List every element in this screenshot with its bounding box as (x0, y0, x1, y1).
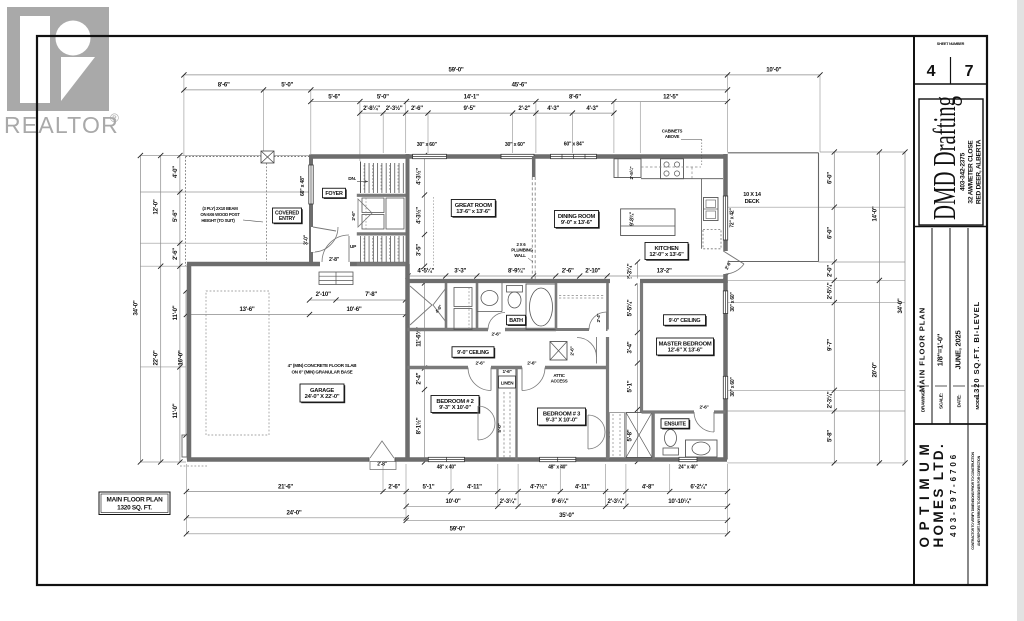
svg-text:30" x 60": 30" x 60" (730, 292, 736, 312)
svg-text:2'-3½": 2'-3½" (386, 105, 403, 112)
svg-text:5'-6": 5'-6" (172, 210, 179, 222)
ensuite vanity (686, 440, 718, 457)
kitchen upper cabinets dashed (641, 166, 701, 168)
bed3 closet dashed strip (610, 413, 625, 458)
svg-text:4" (MIN) CONCRETE FLOOR SLAB: 4" (MIN) CONCRETE FLOOR SLAB (288, 363, 358, 368)
svg-text:6'-0": 6'-0" (826, 227, 833, 239)
master west wall (640, 330, 643, 413)
window 30x60 #2 (501, 154, 534, 158)
kitchen island (621, 209, 675, 236)
svg-text:20'-0": 20'-0" (871, 362, 878, 377)
svg-text:5'-0": 5'-0" (377, 93, 389, 100)
main interior wall (408, 279, 726, 283)
dim col stairs 4-3 4-3 3-5 (424, 156, 426, 267)
svg-text:9'-6¼": 9'-6¼" (552, 498, 569, 505)
svg-text:RED DEER, ALBERTA: RED DEER, ALBERTA (976, 139, 983, 204)
svg-text:DN.: DN. (348, 176, 356, 182)
svg-text:2'-0": 2'-0" (826, 265, 833, 277)
MAIN FLOOR PLAN title box (99, 492, 170, 515)
stair upper run DN (360, 163, 362, 193)
kitchen east wall (723, 154, 728, 251)
svg-text:2'-10": 2'-10" (316, 291, 331, 298)
hall east wall upper (640, 283, 643, 330)
svg-text:10'-0": 10'-0" (766, 67, 781, 74)
dim col right 6-0 6-0 2-0 and lower (833, 152, 835, 463)
dim row bottom segments (186, 491, 727, 493)
svg-text:10'-0": 10'-0" (445, 498, 460, 505)
window 48x40 #1 (428, 457, 464, 461)
title field SCALE: (935, 385, 947, 387)
svg-text:5'-0": 5'-0" (497, 423, 503, 432)
svg-text:CONTRACTOR TO VERIFY DIMENSION: CONTRACTOR TO VERIFY DIMENSIONS PRIOR TO… (971, 451, 975, 549)
entry west window 60x48 (309, 165, 313, 204)
attic access hatch (550, 342, 567, 361)
title field divider 3 (967, 228, 969, 424)
DINING ROOM label (556, 212, 600, 229)
svg-text:4'-3½": 4'-3½" (416, 207, 423, 224)
ensuite north wall (642, 410, 726, 413)
ensuite toilet (663, 448, 679, 455)
svg-text:HEIGHT (TO SUIT): HEIGHT (TO SUIT) (201, 218, 235, 223)
svg-text:6'-2¼": 6'-2¼" (690, 483, 707, 490)
deck outline (728, 152, 819, 154)
title fields bottom divider (914, 423, 987, 425)
svg-text:48" x 40": 48" x 40" (437, 465, 457, 471)
svg-text:3'-3": 3'-3" (454, 268, 466, 275)
svg-text:4'-0": 4'-0" (172, 166, 179, 178)
svg-text:ATTIC: ATTIC (553, 373, 565, 378)
garage door jamb detail (182, 435, 187, 457)
bed2 closet doors (478, 406, 495, 423)
master east wall (723, 281, 728, 460)
COVERED ENTRY label (274, 209, 303, 224)
svg-text:9'-3" X 10'-0": 9'-3" X 10'-0" (439, 405, 471, 411)
svg-text:2'-4": 2'-4" (596, 314, 601, 323)
porch post 6x6 (261, 151, 274, 163)
svg-text:60" x 84": 60" x 84" (564, 142, 585, 148)
svg-text:4'-3": 4'-3" (547, 105, 559, 112)
svg-text:30" x 60": 30" x 60" (505, 142, 526, 148)
svg-text:8'-9¾": 8'-9¾" (508, 268, 525, 275)
covered entry dashed outline (186, 156, 313, 158)
dim row window offsets (360, 112, 614, 114)
svg-text:2'-6": 2'-6" (475, 361, 484, 367)
svg-text:1320 SQ. FT.: 1320 SQ. FT. (117, 505, 152, 512)
bath toilet (507, 286, 523, 293)
svg-text:4'-11": 4'-11" (467, 483, 482, 490)
right dim extension lines (820, 151, 905, 153)
title field divider 2 (949, 228, 951, 424)
svg-text:32 AWMETER CLOSE: 32 AWMETER CLOSE (968, 140, 975, 204)
dim row bottom 10-0 9-6 10-10 (406, 505, 727, 507)
svg-text:FOYER: FOYER (325, 191, 343, 197)
svg-text:30" x 60": 30" x 60" (417, 142, 438, 148)
svg-text:14'-1": 14'-1" (464, 93, 479, 100)
svg-text:13'-6" x 13'-6": 13'-6" x 13'-6" (456, 209, 491, 215)
svg-text:MAIN FLOOR PLAN: MAIN FLOOR PLAN (107, 497, 164, 504)
master closet shelf dashed (559, 295, 604, 297)
dim row 5'-6 5'-0 14'-1 8'-6 12'-5 (311, 101, 728, 103)
svg-text:ON 6" (MIN) GRANULAR BASE: ON 6" (MIN) GRANULAR BASE (291, 370, 352, 375)
dim garage 13-6 10-6 (186, 314, 405, 316)
garage landing steps (319, 272, 353, 285)
linen west wall (496, 368, 498, 460)
svg-text:4'-8": 4'-8" (642, 483, 654, 490)
entry front door (313, 227, 338, 252)
svg-text:5'-1": 5'-1" (422, 483, 434, 490)
svg-text:403-342-2375: 403-342-2375 (960, 152, 967, 191)
master closet south wall (556, 328, 608, 331)
svg-text:2'-10": 2'-10" (585, 268, 600, 275)
svg-text:REALTOR: REALTOR (4, 112, 119, 138)
dim col left 34'-0 (139, 156, 141, 463)
svg-text:5'-1": 5'-1" (627, 380, 634, 392)
svg-text:9'-7": 9'-7" (826, 339, 833, 351)
svg-text:11'-0": 11'-0" (172, 403, 179, 418)
DMD Drafting box (919, 99, 983, 225)
stair closet door (358, 199, 372, 227)
svg-text:DMD Drafting: DMD Drafting (926, 96, 962, 220)
title field DATE: (953, 385, 965, 387)
bed3 east wall (606, 337, 609, 460)
svg-text:CABINETS: CABINETS (662, 129, 683, 134)
garage dashed line outside (180, 465, 207, 467)
tub east wall (555, 283, 558, 330)
svg-text:2'-3¼": 2'-3¼" (826, 391, 833, 408)
svg-text:10'-10¼": 10'-10¼" (668, 498, 691, 505)
stair bottom wall (357, 262, 409, 266)
svg-text:2'-5¼": 2'-5¼" (628, 167, 635, 180)
svg-text:22'-0": 22'-0" (153, 350, 160, 365)
dim col right 34'-0 (904, 152, 906, 463)
svg-text:3'-4": 3'-4" (627, 341, 634, 353)
svg-text:4'-11": 4'-11" (575, 483, 590, 490)
svg-text:59'-0": 59'-0" (450, 526, 465, 533)
deck patio door (723, 251, 728, 274)
svg-text:4: 4 (927, 63, 936, 80)
svg-text:10'-6": 10'-6" (346, 306, 361, 313)
svg-text:2 X 6: 2 X 6 (516, 242, 526, 247)
bath vanity (477, 311, 502, 313)
svg-text:DATE:: DATE: (957, 394, 962, 407)
svg-text:5'-0": 5'-0" (281, 82, 293, 89)
kitchen stove (661, 159, 684, 179)
top dim extension lines (183, 76, 185, 157)
kitchen fridge (614, 159, 641, 178)
title field divider 1 (931, 228, 933, 424)
svg-text:59'-0": 59'-0" (448, 67, 463, 74)
svg-text:8'-6": 8'-6" (569, 93, 581, 100)
svg-text:48" x 40": 48" x 40" (548, 465, 568, 471)
garage rear man door (369, 457, 395, 462)
svg-text:2'-3¼": 2'-3¼" (500, 498, 517, 505)
svg-text:8'-6": 8'-6" (218, 82, 230, 89)
svg-text:2'-5¼": 2'-5¼" (826, 282, 833, 299)
svg-text:6'-0": 6'-0" (826, 172, 833, 184)
dim garage top 2-10 7-8 (310, 299, 406, 301)
svg-text:12'-0": 12'-0" (153, 199, 160, 214)
svg-text:2'-3¼": 2'-3¼" (608, 498, 625, 505)
window 48x40 #2 (540, 457, 576, 461)
svg-text:PLUMBING: PLUMBING (511, 248, 533, 253)
svg-text:9'-0" CEILING: 9'-0" CEILING (669, 318, 701, 324)
stair mid wall upper (357, 194, 409, 197)
closet east wall (606, 283, 609, 330)
bed3 door (522, 365, 545, 370)
ensuite door (694, 410, 714, 414)
svg-text:SCALE:: SCALE: (939, 392, 944, 409)
svg-text:2'-6": 2'-6" (172, 248, 179, 260)
closet shelves (454, 288, 472, 307)
window 30x60 #1 (413, 154, 447, 158)
svg-text:ABOVE: ABOVE (665, 134, 680, 139)
svg-text:®: ® (110, 111, 119, 125)
master window 30x60 #2 (723, 376, 727, 399)
master wardrobe (626, 413, 652, 458)
svg-text:DECK: DECK (745, 199, 760, 205)
svg-text:3'-0": 3'-0" (304, 234, 310, 245)
dim col bedrooms left (424, 283, 426, 462)
sheet number box divider (914, 83, 987, 85)
linen shaft dashed (503, 392, 505, 458)
svg-text:30" x 60": 30" x 60" (730, 377, 736, 397)
bath south wall (408, 328, 557, 331)
DMD box bottom full line (914, 226, 987, 228)
svg-text:5'-6": 5'-6" (328, 93, 340, 100)
svg-text:9'-0" x 13'-6": 9'-0" x 13'-6" (561, 220, 593, 226)
svg-text:7'-8": 7'-8" (365, 291, 377, 298)
svg-text:9'-3" X 10'-0": 9'-3" X 10'-0" (546, 417, 578, 423)
title field MODEL: (971, 385, 984, 387)
svg-text:24'-0": 24'-0" (286, 510, 301, 517)
svg-text:1'-6": 1'-6" (502, 369, 511, 375)
bottom dim extension lines (185, 464, 187, 534)
stair mid wall lower (357, 232, 409, 235)
svg-text:34'-0": 34'-0" (132, 300, 139, 315)
stair closet rects (362, 198, 384, 213)
dim col left 16'-0 (185, 291, 187, 435)
GREAT ROOM label (453, 201, 497, 218)
dim col left 12'-0 22'-0 (160, 156, 162, 463)
exterior wall entry west (309, 155, 313, 267)
svg-text:5'-8": 5'-8" (826, 430, 833, 442)
svg-text:2'-6": 2'-6" (388, 483, 400, 490)
dim col left 4-0 5-6 2-6 11 11 (179, 156, 181, 463)
bath tub (526, 284, 556, 330)
svg-text:JUNE, 2025: JUNE, 2025 (954, 330, 963, 370)
KITCHEN label (646, 244, 689, 261)
east wall below deck door (723, 274, 728, 283)
svg-text:11'-0": 11'-0" (172, 305, 179, 320)
svg-text:ACCESS: ACCESS (551, 379, 568, 384)
svg-text:9'-0" CEILING: 9'-0" CEILING (457, 350, 489, 356)
svg-text:1/8"=1'-0": 1/8"=1'-0" (936, 333, 945, 366)
kitchen sink double (704, 198, 719, 221)
svg-text:2'-6": 2'-6" (411, 105, 423, 112)
dim row 59'-0 and 10'-0 (184, 74, 820, 76)
ensuite west wall (652, 412, 655, 460)
plumbing wall stub (532, 156, 536, 177)
svg-text:SHEET NUMBER: SHEET NUMBER (937, 42, 965, 46)
master ceiling label (665, 316, 707, 327)
svg-text:(3 PLY) 2X10 BEAM: (3 PLY) 2X10 BEAM (202, 206, 238, 211)
FOYER label (324, 189, 347, 199)
svg-text:4'-7½": 4'-7½" (530, 483, 547, 490)
svg-text:24" x 40": 24" x 40" (678, 465, 698, 471)
great room west wall (406, 154, 410, 283)
svg-text:35'-0": 35'-0" (559, 512, 574, 519)
bath west wall (476, 283, 479, 330)
svg-text:UP: UP (350, 244, 357, 250)
master window 30x60 #1 (723, 291, 727, 314)
dim row bottom 24'-0 (186, 517, 406, 519)
title field DRAWING: (917, 385, 929, 387)
svg-text:BATH: BATH (509, 318, 523, 324)
walkin closet bifold doors (410, 286, 432, 325)
bed2 door (468, 365, 491, 370)
svg-text:10 X 14: 10 X 14 (743, 192, 762, 198)
dim interior hall row (408, 275, 726, 277)
svg-text:2'-2": 2'-2" (518, 105, 530, 112)
svg-text:2'-8": 2'-8" (377, 462, 387, 468)
MASTER BEDROOM label (658, 339, 715, 356)
svg-text:7: 7 (965, 63, 974, 80)
garage west wall (187, 264, 192, 460)
linen east wall (515, 368, 517, 460)
svg-text:2'-6": 2'-6" (699, 405, 708, 411)
svg-text:72" x 42": 72" x 42" (730, 208, 736, 228)
svg-text:13'-2": 13'-2" (657, 268, 672, 275)
dim col right 14'-0 20'-0 (878, 152, 880, 463)
svg-text:16'-0": 16'-0" (178, 350, 185, 365)
svg-text:ON 6X6 WOOD POST: ON 6X6 WOOD POST (200, 212, 240, 217)
sheet number middle divider (950, 57, 952, 84)
svg-text:14'-0": 14'-0" (871, 206, 878, 221)
svg-text:ENSUITE: ENSUITE (664, 421, 686, 427)
kitchen counter edge (641, 178, 723, 180)
bedroom wing north wall (408, 366, 608, 369)
svg-text:2'-8": 2'-8" (329, 257, 340, 263)
svg-text:2'-3¼": 2'-3¼" (627, 263, 634, 280)
BATH label (508, 316, 527, 326)
svg-text:5'-8": 5'-8" (627, 429, 634, 441)
dim row 8'-6 5'-0 45'-6 (184, 89, 728, 91)
svg-text:2'-8¼": 2'-8¼" (363, 105, 380, 112)
svg-text:4'-3½": 4'-3½" (416, 168, 423, 185)
svg-text:21'-6": 21'-6" (278, 483, 293, 490)
hall opening in main wall (610, 279, 640, 284)
svg-text:12'-0" x 13'-6": 12'-0" x 13'-6" (649, 252, 684, 258)
garage/house bottom wall (187, 457, 727, 462)
svg-text:HOMES LTD.: HOMES LTD. (931, 445, 946, 548)
svg-text:9'-8¾": 9'-8¾" (629, 211, 636, 226)
svg-text:2'-6": 2'-6" (562, 268, 574, 275)
dim extension dashed stairs (433, 197, 435, 266)
svg-text:45'-6": 45'-6" (512, 82, 527, 89)
svg-text:2'-6": 2'-6" (527, 361, 536, 367)
hall-master door (596, 337, 598, 364)
hall ceiling label (453, 348, 495, 359)
left dim extension lines (140, 155, 310, 157)
dim row bottom 59'-0 (186, 533, 727, 535)
svg-text:12'-6" X 13'-6": 12'-6" X 13'-6" (668, 347, 703, 353)
svg-text:2'-4": 2'-4" (416, 372, 423, 384)
svg-text:12'-5": 12'-5" (663, 93, 678, 100)
svg-text:24'-0" X 22'-0": 24'-0" X 22'-0" (305, 394, 340, 400)
garage east wall / house west wall lower (405, 264, 410, 460)
svg-text:LINEN: LINEN (501, 381, 514, 386)
garage rear door step (370, 462, 396, 470)
svg-text:4'-3": 4'-3" (586, 105, 598, 112)
svg-text:2'-6": 2'-6" (351, 211, 357, 220)
svg-text:34'-0": 34'-0" (897, 298, 904, 313)
kitchen dishwasher dashed (703, 229, 721, 248)
title block left divider (913, 36, 915, 585)
svg-text:5'-5¼": 5'-5¼" (627, 299, 634, 316)
garage top wall / entry bottom wall (187, 262, 409, 267)
svg-text:ENTRY: ENTRY (279, 216, 296, 222)
garage man door to house (320, 262, 350, 267)
garage interior dashed rect (206, 291, 269, 435)
window 24x40 ensuite (679, 457, 697, 461)
bath door in south wall (488, 327, 505, 332)
svg-text:2'-6": 2'-6" (491, 332, 500, 338)
scan edge strip right (1017, 0, 1024, 621)
walkin closet east wall (445, 283, 448, 330)
svg-text:13'-6": 13'-6" (239, 306, 254, 313)
svg-text:60" x 48": 60" x 48" (300, 175, 306, 196)
window 60x84 (551, 154, 597, 158)
plumbing wall dashed (531, 177, 533, 281)
GARAGE label (301, 385, 345, 403)
svg-text:AND REPORT ANY ERRORS TO DESIG: AND REPORT ANY ERRORS TO DESIGNER FOR CO… (977, 455, 981, 546)
dim row bottom 35'-0 (406, 519, 727, 521)
svg-text:8'-1½": 8'-1½" (416, 417, 423, 434)
svg-text:2'-6": 2'-6" (570, 346, 576, 355)
svg-text:4'-5¼": 4'-5¼" (417, 268, 434, 275)
kitchen window 72x42 (723, 196, 727, 240)
ENSUITE label (662, 420, 690, 430)
svg-text:WALL: WALL (514, 253, 526, 258)
stair lower run UP (360, 236, 362, 262)
BEDROOM 2 label (432, 397, 480, 414)
svg-text:3'-5": 3'-5" (416, 244, 423, 256)
linen label box (499, 376, 516, 388)
svg-text:9'-5": 9'-5" (464, 105, 476, 112)
optimum divider (967, 424, 969, 585)
dim col master left (637, 262, 639, 462)
REALTOR watermark logo (4, 7, 119, 138)
BEDROOM 3 label (539, 409, 587, 426)
exterior wall top (311, 154, 726, 159)
bed3 closet doors (588, 415, 605, 432)
master closet door (589, 328, 606, 332)
